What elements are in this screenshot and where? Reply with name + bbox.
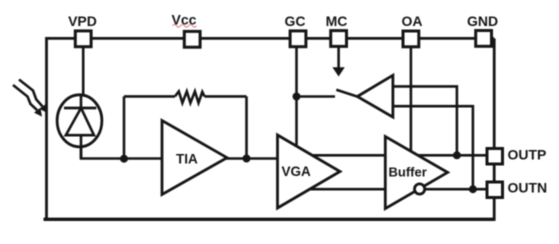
node: OUTN feedback junction <box>469 185 477 193</box>
svg-text:VGA: VGA <box>282 164 312 179</box>
wire: VPD pad down through photodiode <box>81 46 83 159</box>
pad OUTN <box>487 182 503 198</box>
pad GND <box>476 31 492 47</box>
wire: TIA feedback loop left vertical <box>123 96 126 158</box>
photodiode D1 cathode bar <box>64 107 96 110</box>
node: OUTP feedback junction <box>453 151 461 159</box>
photodiode D1 triangle <box>66 108 94 135</box>
MC control arrow head <box>332 67 344 76</box>
svg-text:Buffer: Buffer <box>389 165 427 180</box>
light arrow 2 head <box>34 108 42 117</box>
op-amp TIA U1 triangle <box>162 121 227 195</box>
wire: VGA to Buffer lower line and OUTN line <box>307 188 488 191</box>
op-amp VGA U3 triangle <box>278 135 341 208</box>
svg-text:VPD: VPD <box>68 13 97 29</box>
wire: TIA feedback top left segment <box>124 95 175 98</box>
light arrow 1 shaft (upper) <box>19 80 43 107</box>
pad OA <box>403 31 419 47</box>
wire: outer box bottom edge <box>44 218 495 221</box>
node: TIA input junction <box>120 155 128 163</box>
wire: outer box right edge <box>493 38 496 221</box>
wire: TIA feedback loop right vertical <box>245 96 248 158</box>
svg-text:OA: OA <box>402 13 423 29</box>
light arrow 2 shaft (lower) <box>13 85 37 110</box>
MC control arrow shaft <box>337 46 340 68</box>
wire: GC control vertical into VGA <box>295 46 298 147</box>
wire: amp U2 lower feedback from OUTN <box>393 106 473 189</box>
wire: VGA to Buffer upper line and OUTP line <box>309 154 488 157</box>
wire: main signal line photodiode to VGA input <box>81 135 278 159</box>
svg-text:OUTN: OUTN <box>508 179 548 195</box>
svg-text:MC: MC <box>326 13 348 29</box>
pad MC <box>331 31 347 47</box>
photodiode D1 circle <box>57 95 102 147</box>
node: GC junction <box>293 93 301 101</box>
svg-text:TIA: TIA <box>176 152 198 167</box>
switch S1 open blade <box>336 90 357 97</box>
wire: TIA feedback top right segment <box>205 95 247 98</box>
pad VPD <box>75 31 91 47</box>
svg-text:GC: GC <box>285 13 306 29</box>
node: TIA output junction <box>243 155 251 163</box>
op-amp Buffer U4 triangle <box>385 137 447 209</box>
wire: outer box left edge <box>45 37 48 219</box>
svg-text:GND: GND <box>467 13 498 29</box>
wire: GC node to switch contact <box>297 95 336 98</box>
inverting output bubble on Buffer <box>415 184 425 194</box>
resistor R feedback zigzag <box>175 91 205 103</box>
wire: outer box top edge <box>45 37 494 40</box>
pad OUTP <box>487 149 503 165</box>
pad Vcc <box>184 31 200 47</box>
wire: amp U2 upper feedback from OUTP <box>393 86 457 155</box>
op-amp U2 offset amplifier pointing left <box>357 75 393 117</box>
light arrow 1 head <box>39 104 47 113</box>
svg-text:OUTP: OUTP <box>508 146 547 162</box>
wire: OA control vertical to buffer <box>410 47 413 152</box>
label Vcc spellcheck squiggle <box>173 25 197 28</box>
pad GC <box>290 31 306 47</box>
